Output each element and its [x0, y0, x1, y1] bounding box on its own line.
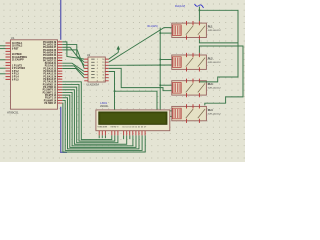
- svg-text:P0.1/AD1 38: P0.1/AD1 38: [43, 43, 57, 46]
- U1 right pins: [58, 42, 63, 103]
- relay RL2 G2R-14 body: [172, 55, 207, 69]
- junction trunk/OUT2: [159, 64, 161, 66]
- junction node RL1 terminal: [199, 10, 201, 12]
- relay RL4 coil: [173, 108, 182, 119]
- svg-text:4: 4: [97, 68, 98, 70]
- svg-text:RL3: RL3: [208, 83, 213, 86]
- junction node LCD branch: [114, 90, 116, 92]
- svg-text:P2.4/A12 25: P2.4/A12 25: [43, 73, 56, 76]
- svg-text:14: 14: [102, 65, 104, 67]
- svg-text:P2.5/A13 26: P2.5/A13 26: [43, 75, 56, 78]
- svg-text:2 P1.1/T2EX: 2 P1.1/T2EX: [12, 68, 25, 70]
- relay RL4 bottom pins: [187, 119, 200, 123]
- relay RL2 top pins: [187, 53, 200, 57]
- wire branch down to LCD top: [114, 91, 116, 110]
- svg-text:30 ALE/PROG: 30 ALE/PROG: [12, 56, 27, 59]
- wire P2.0 to ULN IN5: [62, 63, 84, 71]
- wire MCU to LCD D4: [62, 95, 136, 147]
- wire P2.1 to ULN IN6: [62, 66, 84, 75]
- svg-text:P0.0/AD0 39: P0.0/AD0 39: [43, 41, 57, 44]
- svg-text:13: 13: [102, 68, 104, 70]
- wire MCU to LCD E: [62, 87, 118, 143]
- wire MCU to LCD RS: [62, 82, 112, 140]
- coil common trunk: [159, 28, 161, 117]
- relay RL4 armature 1: [186, 109, 193, 118]
- stub trunk to RL1 coil lower: [160, 32, 172, 34]
- wire ULN OUT4 staircase to RL4 coil: [109, 72, 173, 111]
- svg-text:RW: RW: [113, 127, 116, 129]
- svg-text:G2R-14-DC12: G2R-14-DC12: [208, 88, 222, 90]
- wire MCU to LCD D1: [62, 90, 126, 144]
- LCD LM044L body: [96, 110, 170, 131]
- svg-text:31 EA/VPP: 31 EA/VPP: [12, 59, 24, 62]
- svg-text:15: 15: [102, 62, 104, 64]
- terminal squiggle: [195, 4, 204, 8]
- svg-text:AT89C51: AT89C51: [7, 110, 19, 114]
- relay RL1 bottom pins: [187, 35, 200, 39]
- wire P0.2 to ULN IN3: [62, 47, 84, 65]
- svg-text:RL4: RL4: [208, 109, 213, 112]
- relay RL3 coil: [173, 83, 182, 94]
- wire RL1 top pin up to terminal: [198, 7, 200, 22]
- svg-text:18 XTAL2: 18 XTAL2: [12, 45, 23, 48]
- svg-text:3: 3: [97, 65, 98, 67]
- svg-text:G2R-14-DC12: G2R-14-DC12: [208, 113, 222, 115]
- svg-text:P0.3/AD3 36: P0.3/AD3 36: [43, 49, 57, 52]
- svg-text:P0.5/AD5 34: P0.5/AD5 34: [43, 54, 57, 57]
- svg-text:U1: U1: [11, 36, 15, 40]
- relay RL2 coil: [173, 57, 182, 68]
- wire ULN OUT1 diagonal to RL1 coil: [109, 28, 173, 63]
- relay RL2 bottom pins: [187, 67, 200, 71]
- wire left off-page 4: [0, 67, 6, 69]
- wire LCD VSS: [98, 135, 100, 138]
- relay RL4 armature 2: [198, 109, 205, 118]
- svg-text:1: 1: [97, 59, 98, 61]
- svg-text:19 XTAL1: 19 XTAL1: [12, 42, 23, 45]
- microcontroller U1 AT89C51 body: [11, 40, 58, 109]
- svg-text:6: 6: [97, 74, 98, 76]
- svg-text:12: 12: [102, 71, 104, 73]
- wire ULN OUT2 to RL2 coil: [109, 64, 173, 66]
- svg-text:U2: U2: [87, 53, 91, 57]
- stub trunk to RL3 coil upper: [160, 84, 172, 86]
- relay RL2 armature 2: [198, 58, 205, 67]
- relay RL3 armature 1: [186, 83, 193, 92]
- wire left off-page 3: [0, 59, 6, 61]
- svg-text:9 RST: 9 RST: [12, 49, 19, 51]
- wire P0.3 to ULN IN4: [62, 50, 84, 69]
- wire left off-page 2: [0, 48, 6, 50]
- relay RL3 top pins: [187, 79, 200, 83]
- bus segment bottom: [61, 107, 67, 153]
- relay RL4 G2R-14 body: [172, 106, 207, 120]
- LCD screen: [99, 112, 167, 125]
- svg-text:P0.6/AD6 33: P0.6/AD6 33: [43, 57, 57, 60]
- wire left off-page 1: [0, 45, 6, 47]
- relay RL1 armature 1: [186, 26, 193, 35]
- wire MCU to LCD RW: [62, 84, 115, 141]
- svg-text:LM044L: LM044L: [100, 105, 109, 108]
- relay RL3 armature 2: [198, 83, 205, 92]
- svg-text:5: 5: [97, 71, 98, 73]
- wire MCU to LCD D5: [62, 98, 139, 149]
- svg-text:P2.3/A11 24: P2.3/A11 24: [44, 70, 57, 73]
- svg-text:RL2: RL2: [208, 57, 213, 60]
- svg-text:P0.7/AD7 32: P0.7/AD7 32: [43, 59, 57, 62]
- svg-text:2: 2: [97, 62, 98, 64]
- relay RL1 top pins: [187, 21, 200, 25]
- svg-text:RL1: RL1: [208, 26, 213, 29]
- wire ULN OUT3 staircase to RL3 coil: [109, 68, 173, 90]
- svg-text:P3.7/RD 17: P3.7/RD 17: [44, 103, 57, 105]
- svg-text:D4: D4: [135, 127, 137, 129]
- relay RL3 bottom pins: [187, 93, 200, 97]
- svg-text:10: 10: [102, 78, 104, 80]
- wire MCU to LCD D3: [62, 92, 133, 145]
- svg-text:P2.7/A15 28: P2.7/A15 28: [43, 81, 56, 84]
- svg-text:8: 8: [97, 81, 98, 83]
- svg-text:D7: D7: [144, 127, 146, 129]
- svg-text:P0.2/AD2 37: P0.2/AD2 37: [43, 46, 57, 49]
- svg-text:1 P1.0/T2: 1 P1.0/T2: [12, 65, 23, 67]
- wire RL1 bottom pin to chain: [199, 40, 238, 43]
- junction trunk RL2: [159, 59, 161, 61]
- svg-text:D1: D1: [126, 127, 128, 129]
- power terminal arrow: [109, 52, 119, 59]
- U2 pins: [84, 59, 109, 81]
- relay RL4 top pins: [187, 104, 200, 108]
- svg-text:D6: D6: [141, 127, 143, 129]
- wire LCD VEE: [104, 135, 106, 138]
- svg-text:P3.4/T0 14: P3.4/T0 14: [45, 94, 57, 97]
- svg-text:P2.6/A14 27: P2.6/A14 27: [43, 78, 56, 81]
- svg-text:P2.2/A10 23: P2.2/A10 23: [43, 67, 56, 70]
- svg-text:3 P1.2: 3 P1.2: [12, 71, 19, 73]
- svg-text:D2: D2: [129, 127, 131, 129]
- wire chain RL2 to RL4: [199, 46, 243, 105]
- stub trunk to RL4 coil lower: [160, 115, 172, 117]
- svg-text:G2R-14-DC12: G2R-14-DC12: [208, 62, 222, 64]
- svg-text:RL1(12V): RL1(12V): [148, 25, 158, 28]
- bus segment top: [60, 0, 62, 40]
- wire chain RL1 to RL3: [199, 10, 238, 82]
- relay RL2 armature 1: [186, 58, 193, 67]
- wire P0.1 to ULN IN2: [62, 45, 84, 63]
- svg-text:ULN2003A: ULN2003A: [86, 82, 99, 86]
- relay RL3 G2R-14 body: [172, 81, 207, 95]
- junction trunk RL3: [159, 84, 161, 86]
- svg-text:11: 11: [103, 74, 105, 76]
- LCD pins: [99, 131, 145, 136]
- wire LCD D0: [123, 135, 125, 139]
- wire LCD D2: [129, 135, 131, 139]
- svg-text:D3: D3: [132, 127, 134, 129]
- wire LCD VDD: [101, 135, 103, 138]
- junction trunk RL1: [159, 32, 161, 34]
- svg-text:P0.4/AD4 35: P0.4/AD4 35: [43, 51, 57, 54]
- svg-text:6 P1.5: 6 P1.5: [12, 79, 19, 81]
- svg-text:G2R-14-DC12: G2R-14-DC12: [208, 30, 222, 32]
- svg-text:29 PSEN: 29 PSEN: [12, 54, 22, 56]
- svg-text:5 P1.4: 5 P1.4: [12, 76, 19, 79]
- U2 inner symbols: [91, 59, 94, 78]
- svg-text:16: 16: [102, 59, 104, 61]
- svg-text:P2.0/A8 21: P2.0/A8 21: [45, 62, 57, 65]
- wire P0.0 to ULN IN1: [62, 42, 84, 59]
- driver U2 ULN2003A body: [88, 57, 105, 82]
- svg-text:9: 9: [103, 81, 104, 83]
- relay RL1 G2R-14 body: [172, 23, 207, 37]
- svg-text:7: 7: [97, 78, 98, 80]
- svg-text:4 P1.3: 4 P1.3: [12, 73, 19, 76]
- svg-text:P2.1/A9 22: P2.1/A9 22: [45, 65, 57, 68]
- wire MCU to LCD D6: [62, 100, 142, 150]
- wire P2.2 to ULN IN7: [62, 69, 84, 78]
- wire MCU to LCD D7: [62, 103, 145, 152]
- svg-text:D5: D5: [138, 127, 140, 129]
- relay RL1 armature 2: [198, 26, 205, 35]
- relay RL1 coil: [173, 25, 182, 36]
- svg-text:D0: D0: [123, 127, 125, 129]
- wire left off-page 5: [0, 73, 6, 75]
- svg-text:RL1(12V): RL1(12V): [175, 5, 185, 8]
- U1 left pins: [6, 43, 11, 79]
- stub trunk to RL2 coil upper: [160, 59, 172, 61]
